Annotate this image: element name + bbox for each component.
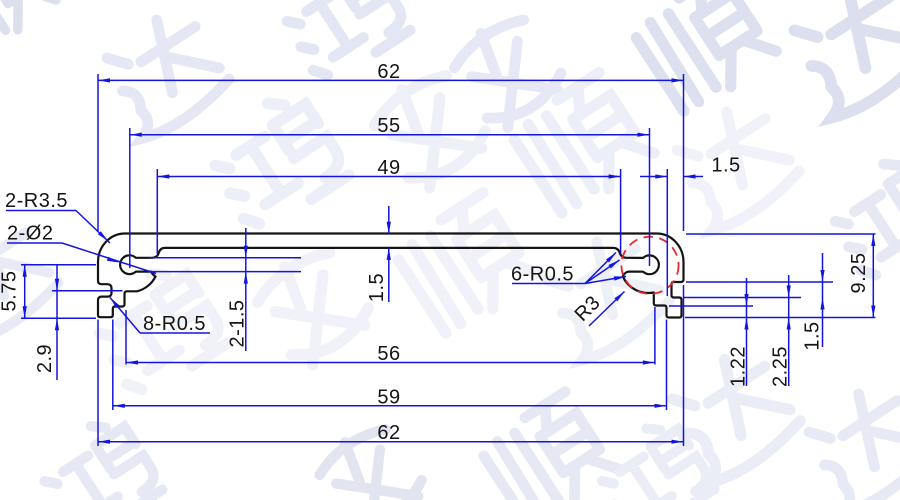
extension line 49 right (620, 169, 622, 254)
extension line left boss centre height (21, 264, 96, 266)
extension line bottom right (685, 317, 876, 319)
dimension 1.22 right foot (728, 278, 750, 387)
svg-text:5.75: 5.75 (0, 271, 21, 312)
extension line left notch height (52, 290, 123, 292)
svg-text:2-Ø2: 2-Ø2 (7, 223, 53, 245)
label 2-R3.5 corner radius with leader (5, 190, 110, 243)
extension line 62 right top (683, 74, 685, 231)
extension line 1.5 top right inner (666, 169, 668, 296)
svg-text:1.5: 1.5 (711, 155, 740, 177)
extension line 59 left (112, 320, 114, 411)
dimension 5.75 left (0, 265, 27, 319)
dimension 1.5 panel thickness centre (366, 206, 391, 302)
svg-text:49: 49 (377, 157, 400, 179)
dimension 2.9 left (34, 265, 59, 380)
extension line 62 bottom left (97, 320, 99, 447)
extension line right step 2 (684, 297, 801, 299)
extension line 56 left (125, 310, 127, 365)
R3 red dashed reference circle on right screw boss (621, 237, 678, 294)
extension line right step 3 (669, 305, 753, 307)
dimension 9.25 overall height (848, 234, 875, 318)
svg-text:1.22: 1.22 (728, 346, 750, 387)
svg-text:2.25: 2.25 (770, 346, 792, 387)
label 2-diameter-2 screw holes with leader (7, 223, 156, 274)
dimension 62 top (98, 61, 684, 83)
extension line 62 bottom right (683, 285, 685, 446)
dimension 62 bottom (98, 422, 684, 444)
profile outline (aluminium extrusion cross-section) (98, 234, 684, 318)
svg-text:55: 55 (377, 115, 400, 137)
svg-text:1.5: 1.5 (802, 321, 824, 350)
extension line 59 right (666, 320, 668, 411)
extension line 55 right (boss centre) (649, 128, 651, 266)
svg-text:6-R0.5: 6-R0.5 (511, 264, 574, 286)
dimension 49 (157, 157, 620, 179)
dimension 2.25 right foot (770, 275, 792, 387)
label R3 boss radius with leader (571, 292, 625, 327)
svg-text:2-R3.5: 2-R3.5 (5, 190, 68, 212)
svg-text:59: 59 (377, 386, 400, 408)
dimension 2-1.5 slot arm thickness (150, 228, 301, 351)
extension line top surface right (686, 233, 876, 235)
dimension 1.5 top right (640, 155, 741, 179)
label 6-R0.5 slot fillets with three leaders (511, 253, 626, 286)
extension line 56 right (654, 307, 656, 365)
svg-text:2.9: 2.9 (34, 344, 56, 373)
dimension 55 (130, 115, 650, 137)
svg-text:9.25: 9.25 (848, 253, 870, 294)
extension line left bottom (21, 317, 96, 319)
svg-text:8-R0.5: 8-R0.5 (143, 313, 206, 335)
extension line 49 left (156, 169, 158, 254)
svg-text:2-1.5: 2-1.5 (227, 299, 249, 347)
dimension 59 (113, 386, 667, 408)
label 8-R0.5 foot fillets with leader (110, 298, 210, 336)
svg-text:62: 62 (377, 61, 400, 83)
extension line 55 left (boss centre) (129, 128, 131, 268)
extension line right step 1 (686, 281, 833, 283)
svg-text:62: 62 (377, 422, 400, 444)
dimension 1.5 right foot step (802, 253, 825, 351)
extension line 62 left (97, 74, 99, 231)
svg-text:1.5: 1.5 (366, 273, 388, 302)
svg-text:56: 56 (377, 343, 400, 365)
dimension 56 (126, 343, 655, 365)
